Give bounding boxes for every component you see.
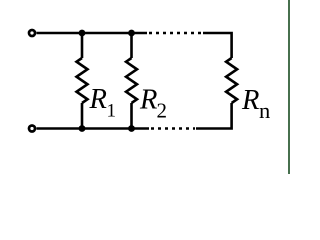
resistor R2 <box>126 58 137 103</box>
wire bottom bus solid right with corner to Rn <box>196 103 232 129</box>
wire R2 bottom lead <box>130 103 133 129</box>
svg-text:2: 2 <box>157 99 168 123</box>
node junction bottom R1 <box>79 125 86 132</box>
svg-text:R: R <box>89 84 107 115</box>
svg-text:n: n <box>259 98 270 123</box>
green page edge <box>288 0 290 174</box>
wire R2 top lead <box>130 33 133 58</box>
resistor R1 <box>77 58 88 103</box>
wire top bus dotted <box>149 32 202 35</box>
wire top bus solid right with corner to Rn <box>203 33 232 58</box>
wire top bus solid left <box>37 32 148 35</box>
wire bottom bus solid left <box>37 127 150 130</box>
wire R1 top lead <box>81 33 84 58</box>
node junction bottom R2 <box>128 125 135 132</box>
wire bottom bus dotted <box>151 127 195 130</box>
svg-text:1: 1 <box>107 101 117 122</box>
resistor Rn <box>226 58 237 103</box>
svg-text:R: R <box>241 85 259 116</box>
node junction top R1 <box>79 30 86 37</box>
wire R1 bottom lead <box>81 103 84 129</box>
node junction top R2 <box>128 30 135 37</box>
terminal bottom-left <box>29 126 35 132</box>
svg-text:R: R <box>139 85 157 116</box>
terminal top-left <box>29 30 35 36</box>
